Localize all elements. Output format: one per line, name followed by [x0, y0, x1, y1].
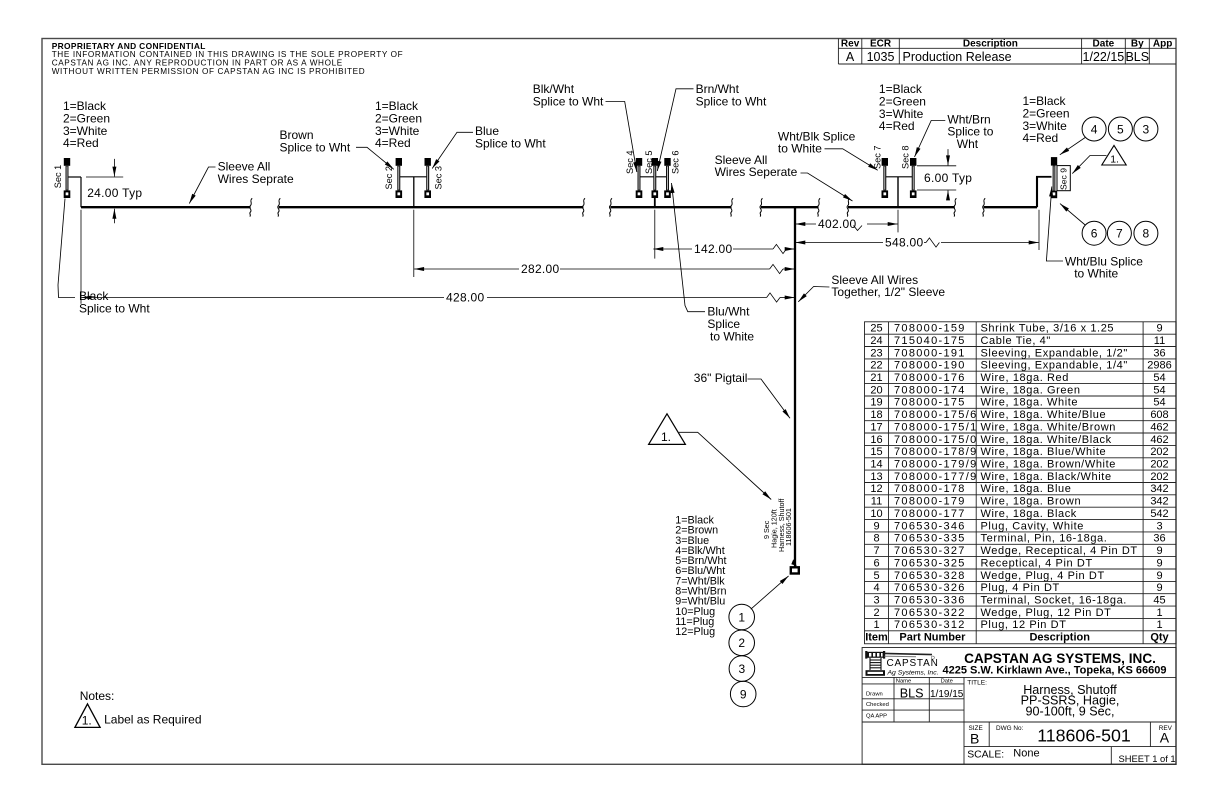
svg-text:17: 17	[870, 421, 882, 433]
svg-text:13: 13	[870, 471, 882, 483]
svg-text:548.00: 548.00	[885, 235, 924, 249]
svg-text:Notes:: Notes:	[80, 689, 115, 703]
svg-text:54: 54	[1153, 384, 1165, 396]
svg-text:Sec 5: Sec 5	[644, 151, 654, 175]
svg-text:36: 36	[1153, 533, 1165, 545]
svg-text:708000-176: 708000-176	[894, 372, 966, 384]
svg-text:708000-177/9: 708000-177/9	[894, 471, 978, 483]
connector Sec 8	[910, 158, 917, 198]
svg-text:428.00: 428.00	[446, 290, 485, 304]
svg-text:8: 8	[873, 533, 879, 545]
flag note triangle 1 at Sec 9	[1072, 145, 1126, 173]
svg-text:Plug, Cavity, White: Plug, Cavity, White	[981, 520, 1085, 532]
wire color legend at Sec 1	[63, 99, 110, 150]
svg-text:708000-175: 708000-175	[894, 397, 966, 409]
svg-text:462: 462	[1150, 434, 1168, 446]
svg-text:6: 6	[873, 557, 879, 569]
svg-text:Wedge, Plug, 12 Pin DT: Wedge, Plug, 12 Pin DT	[981, 607, 1112, 619]
svg-text:5: 5	[873, 570, 879, 582]
svg-text:708000-174: 708000-174	[894, 384, 966, 396]
svg-text:Together, 1/2" Sleeve: Together, 1/2" Sleeve	[831, 285, 945, 299]
svg-text:1035: 1035	[867, 50, 895, 64]
svg-text:to White: to White	[710, 329, 754, 343]
svg-text:BLS: BLS	[1125, 50, 1149, 64]
svg-text:715040-175: 715040-175	[894, 335, 966, 347]
svg-text:Qty: Qty	[1150, 632, 1169, 644]
svg-text:Sec 2: Sec 2	[384, 166, 394, 190]
svg-text:SCALE:: SCALE:	[967, 750, 1004, 761]
svg-text:1: 1	[1156, 607, 1162, 619]
leader from balloon 6 to Sec 9 bottom pin	[1060, 204, 1085, 225]
svg-text:4=Red: 4=Red	[879, 119, 915, 133]
note triangle 1	[75, 704, 100, 728]
svg-text:706530-326: 706530-326	[894, 582, 966, 594]
svg-text:Rev: Rev	[841, 38, 860, 49]
drawing title	[1021, 683, 1120, 718]
dimension 142.00	[653, 248, 794, 250]
svg-text:708000-190: 708000-190	[894, 360, 966, 372]
svg-text:20: 20	[870, 384, 882, 396]
rotated harness label text at pigtail	[762, 499, 793, 552]
drawn/checked rows	[866, 679, 987, 720]
svg-text:282.00: 282.00	[521, 262, 560, 276]
svg-text:Wht: Wht	[957, 137, 979, 151]
svg-text:Production Release: Production Release	[903, 50, 1012, 64]
svg-text:24.00 Typ: 24.00 Typ	[87, 186, 142, 200]
svg-text:Drawn: Drawn	[866, 692, 883, 698]
callout Wht/Brn Splice to Wht	[915, 121, 946, 158]
svg-text:Receptical, 4 Pin DT: Receptical, 4 Pin DT	[981, 557, 1093, 569]
svg-text:708000-175/6: 708000-175/6	[894, 409, 978, 421]
svg-text:4: 4	[1091, 122, 1098, 136]
svg-text:4: 4	[873, 582, 879, 594]
callout Brn/Wht Splice to Wht	[657, 89, 693, 171]
callout Black Splice to Wht leader	[58, 199, 75, 298]
wire branch to Sec 7/8	[885, 177, 913, 207]
svg-text:A: A	[1160, 729, 1170, 745]
dimension 282.00	[414, 268, 795, 270]
size / dwg no / rev	[969, 725, 1173, 732]
pigtail wire legend	[675, 515, 726, 639]
svg-text:608: 608	[1150, 409, 1168, 421]
svg-text:Wedge, Plug, 4 Pin DT: Wedge, Plug, 4 Pin DT	[981, 570, 1105, 582]
svg-text:706530-325: 706530-325	[894, 557, 966, 569]
wire riser to Sec 9	[1036, 177, 1052, 207]
svg-text:Sec 7: Sec 7	[873, 146, 883, 170]
svg-text:90-100ft, 9 Sec,: 90-100ft, 9 Sec,	[1026, 704, 1115, 718]
svg-text:3: 3	[739, 662, 746, 676]
svg-text:Wire, 18ga. White/Blue: Wire, 18ga. White/Blue	[981, 409, 1107, 421]
svg-text:Ag Systems, Inc.: Ag Systems, Inc.	[887, 670, 939, 677]
connector Sec 4	[636, 158, 643, 198]
svg-text:4=Red: 4=Red	[1023, 131, 1059, 145]
svg-text:to White: to White	[778, 142, 822, 156]
svg-text:Wedge, Receptical, 4 Pin DT: Wedge, Receptical, 4 Pin DT	[981, 545, 1138, 557]
svg-text:342: 342	[1150, 483, 1168, 495]
svg-text:9: 9	[740, 687, 747, 701]
svg-text:Sec 1: Sec 1	[53, 165, 63, 189]
svg-text:Splice to Wht: Splice to Wht	[533, 94, 604, 108]
svg-text:2: 2	[738, 636, 745, 650]
svg-text:Splice to Wht: Splice to Wht	[475, 137, 546, 151]
svg-text:54: 54	[1153, 397, 1165, 409]
svg-text:8: 8	[1143, 227, 1150, 241]
svg-text:3: 3	[873, 595, 879, 607]
svg-text:WITHOUT WRITTEN PERMISSION OF: WITHOUT WRITTEN PERMISSION OF CAPSTAN AG…	[52, 67, 366, 76]
svg-text:36" Pigtail: 36" Pigtail	[694, 371, 748, 385]
svg-text:QA APP: QA APP	[866, 714, 887, 720]
svg-text:Wire, 18ga. Blue: Wire, 18ga. Blue	[981, 483, 1072, 495]
svg-text:Sec 8: Sec 8	[901, 146, 911, 170]
connector Sec 2	[396, 158, 403, 198]
svg-text:24: 24	[870, 335, 882, 347]
svg-text:Terminal, Socket, 16-18ga.: Terminal, Socket, 16-18ga.	[981, 595, 1127, 607]
svg-text:708000-178/9: 708000-178/9	[894, 446, 978, 458]
svg-text:Label as Required: Label as Required	[104, 712, 201, 726]
callout Blu/Wht Splice to White	[672, 183, 706, 312]
svg-text:708000-159: 708000-159	[894, 323, 966, 335]
svg-text:6: 6	[1091, 227, 1098, 241]
svg-text:118606-501: 118606-501	[1037, 726, 1131, 746]
svg-text:142.00: 142.00	[694, 242, 733, 256]
svg-text:Wires Seperate: Wires Seperate	[715, 165, 798, 179]
svg-text:12: 12	[870, 483, 882, 495]
svg-text:1.: 1.	[1110, 154, 1119, 166]
svg-text:Cable Tie, 4": Cable Tie, 4"	[981, 335, 1051, 347]
svg-text:1.: 1.	[82, 713, 92, 727]
svg-text:7: 7	[873, 545, 879, 557]
capstan logo	[865, 651, 938, 677]
svg-text:19: 19	[870, 397, 882, 409]
svg-text:Shrink Tube, 3/16 x 1.25: Shrink Tube, 3/16 x 1.25	[981, 323, 1115, 335]
svg-text:14: 14	[870, 459, 882, 471]
svg-text:Wire, 18ga. White/Black: Wire, 18ga. White/Black	[981, 434, 1112, 446]
callout Brown Splice to Wht	[356, 147, 394, 169]
leader from balloon 1 to pigtail connector	[751, 576, 789, 609]
callout Wht/Blk Splice to White	[825, 149, 878, 170]
svg-text:B: B	[970, 730, 979, 746]
svg-text:708000-179/9: 708000-179/9	[894, 459, 978, 471]
svg-text:54: 54	[1153, 372, 1165, 384]
connector Sec 7	[882, 158, 889, 198]
svg-text:3: 3	[1156, 520, 1162, 532]
svg-text:Checked: Checked	[866, 702, 889, 708]
pigtail connector (12 pin plug)	[791, 567, 799, 573]
svg-text:1/19/15: 1/19/15	[930, 689, 964, 700]
svg-text:542: 542	[1150, 508, 1168, 520]
svg-text:Description: Description	[1029, 632, 1090, 644]
leader from balloon 4 to Sec 9 top pin	[1060, 138, 1085, 155]
dimension extension lines	[81, 210, 1039, 304]
svg-text:706530-346: 706530-346	[894, 520, 966, 532]
svg-text:CAPSTAN: CAPSTAN	[887, 658, 939, 669]
svg-text:Wire, 18ga. Black/White: Wire, 18ga. Black/White	[981, 471, 1112, 483]
svg-text:Terminal, Pin, 16-18ga.: Terminal, Pin, 16-18ga.	[981, 533, 1108, 545]
svg-text:BLS: BLS	[900, 686, 924, 700]
svg-text:Wire, 18ga. Brown/White: Wire, 18ga. Brown/White	[981, 459, 1116, 471]
svg-text:21: 21	[870, 372, 882, 384]
svg-text:to White: to White	[1074, 267, 1118, 281]
svg-text:Wire, 18ga. White/Brown: Wire, 18ga. White/Brown	[981, 421, 1116, 433]
svg-text:Name: Name	[896, 679, 911, 685]
svg-text:45: 45	[1153, 595, 1165, 607]
svg-text:4=Red: 4=Red	[63, 136, 99, 150]
svg-text:TITLE:: TITLE:	[967, 679, 987, 686]
svg-text:708000-191: 708000-191	[894, 347, 966, 359]
svg-text:A: A	[846, 50, 855, 64]
svg-text:5: 5	[1117, 122, 1124, 136]
callout Blk/Wht Splice to Wht	[606, 102, 637, 173]
svg-text:9: 9	[1156, 557, 1162, 569]
svg-text:11: 11	[871, 496, 882, 508]
svg-text:706530-322: 706530-322	[894, 607, 966, 619]
svg-text:Wire, 18ga. Brown: Wire, 18ga. Brown	[981, 496, 1082, 508]
connector Sec 1	[64, 158, 71, 198]
svg-text:9: 9	[1156, 570, 1162, 582]
svg-text:Splice to Wht: Splice to Wht	[280, 140, 351, 154]
svg-text:12=Plug: 12=Plug	[675, 626, 715, 638]
svg-text:2: 2	[873, 607, 879, 619]
svg-text:2986: 2986	[1147, 360, 1171, 372]
svg-text:Sec 9: Sec 9	[1059, 168, 1069, 190]
svg-text:18: 18	[870, 409, 882, 421]
svg-text:706530-328: 706530-328	[894, 570, 966, 582]
balloon circles 6 7 8	[1082, 221, 1158, 245]
svg-text:Part Number: Part Number	[899, 632, 966, 644]
svg-text:3: 3	[1143, 122, 1150, 136]
connector Sec 9	[1051, 157, 1070, 198]
svg-text:4225 S.W. Kirklawn Ave., Topek: 4225 S.W. Kirklawn Ave., Topeka, KS 6660…	[943, 665, 1167, 677]
svg-text:10: 10	[870, 508, 882, 520]
svg-text:1.: 1.	[661, 430, 671, 444]
svg-text:1: 1	[738, 610, 745, 624]
svg-text:Plug, 4 Pin DT: Plug, 4 Pin DT	[981, 582, 1060, 594]
svg-text:708000-175/1: 708000-175/1	[894, 421, 978, 433]
svg-text:6.00 Typ: 6.00 Typ	[924, 171, 972, 185]
svg-text:Wire, 18ga. Black: Wire, 18ga. Black	[981, 508, 1077, 520]
svg-text:462: 462	[1150, 421, 1168, 433]
svg-text:708000-175/0: 708000-175/0	[894, 434, 978, 446]
svg-text:Sleeving, Expandable, 1/4": Sleeving, Expandable, 1/4"	[981, 360, 1128, 372]
svg-text:Sleeving, Expandable, 1/2": Sleeving, Expandable, 1/2"	[981, 347, 1128, 359]
connector Sec 5	[652, 158, 659, 198]
flag note triangle 1 at pigtail	[649, 414, 772, 500]
svg-text:706530-336: 706530-336	[894, 595, 966, 607]
svg-text:202: 202	[1150, 471, 1168, 483]
svg-text:9: 9	[1156, 323, 1162, 335]
svg-text:Wire, 18ga. Green: Wire, 18ga. Green	[981, 384, 1081, 396]
balloon circles 4 5 3	[1082, 117, 1158, 141]
connector Sec 3	[424, 158, 431, 198]
svg-text:Sec 3: Sec 3	[434, 166, 444, 190]
callout Sleeve All Wires Seprate (left)	[189, 167, 215, 204]
svg-text:Wire, 18ga. White: Wire, 18ga. White	[981, 397, 1079, 409]
svg-text:9: 9	[1156, 545, 1162, 557]
svg-text:DWG No:: DWG No:	[996, 725, 1024, 732]
dimension 428.00	[81, 297, 794, 299]
svg-text:22: 22	[870, 360, 882, 372]
callout Wht/Blu Splice to White	[1046, 187, 1063, 262]
svg-text:1: 1	[1156, 619, 1162, 631]
svg-text:Plug, 12 Pin DT: Plug, 12 Pin DT	[981, 619, 1067, 631]
balloon circles 1 2 3 9 at pigtail	[729, 604, 756, 707]
wire branch to Sec 4/5/6	[639, 177, 668, 207]
svg-text:706530-327: 706530-327	[894, 545, 966, 557]
svg-text:23: 23	[870, 347, 882, 359]
svg-text:Splice to Wht: Splice to Wht	[696, 94, 767, 108]
dimension 6.00 Typ	[917, 149, 956, 200]
wire branch to Sec 2/3	[399, 177, 428, 207]
svg-text:Description: Description	[963, 38, 1018, 49]
title block frame	[862, 648, 1176, 765]
arrowhead above pigtail connector	[791, 559, 797, 566]
svg-text:SHEET 1 of 1: SHEET 1 of 1	[1119, 753, 1176, 764]
svg-text:7: 7	[1116, 227, 1123, 241]
pigtail wire drop	[794, 207, 796, 566]
svg-text:App: App	[1153, 38, 1172, 49]
svg-text:Sec 6: Sec 6	[671, 151, 681, 175]
svg-text:706530-335: 706530-335	[894, 533, 966, 545]
svg-text:11: 11	[1154, 335, 1165, 347]
callout 36 inch Pigtail	[748, 379, 791, 418]
svg-text:16: 16	[870, 434, 882, 446]
svg-text:Date: Date	[941, 679, 953, 685]
svg-text:202: 202	[1150, 459, 1168, 471]
svg-text:4=Red: 4=Red	[375, 136, 411, 150]
svg-text:ECR: ECR	[870, 38, 892, 49]
dimension 402.00	[795, 223, 897, 225]
callout Sleeve All Wires Seperate (right)	[801, 173, 853, 201]
svg-text:Wires Seprate: Wires Seprate	[218, 172, 294, 186]
svg-text:708000-177: 708000-177	[894, 508, 966, 520]
svg-text:342: 342	[1150, 496, 1168, 508]
svg-text:By: By	[1131, 38, 1144, 49]
svg-text:25: 25	[870, 323, 882, 335]
svg-text:None: None	[1013, 748, 1039, 760]
svg-text:36: 36	[1153, 347, 1165, 359]
svg-text:706530-312: 706530-312	[894, 619, 966, 631]
svg-text:1: 1	[873, 619, 879, 631]
svg-text:Splice to Wht: Splice to Wht	[79, 302, 150, 316]
svg-text:708000-179: 708000-179	[894, 496, 966, 508]
main harness trunk wire	[81, 206, 1037, 208]
svg-text:Wire, 18ga. Blue/White: Wire, 18ga. Blue/White	[981, 446, 1107, 458]
svg-text:9: 9	[1156, 582, 1162, 594]
dimension 24.00 Typ	[86, 159, 123, 223]
svg-text:202: 202	[1150, 446, 1168, 458]
connector Sec 6	[664, 158, 671, 198]
wire color legend at Sec 9	[1023, 94, 1070, 145]
svg-text:Date: Date	[1093, 38, 1115, 49]
svg-text:9: 9	[873, 520, 879, 532]
callout Blue Splice to Wht	[432, 132, 473, 168]
svg-text:708000-178: 708000-178	[894, 483, 966, 495]
svg-text:15: 15	[870, 446, 882, 458]
svg-text:Item: Item	[865, 632, 888, 644]
dimension 548.00	[795, 242, 1038, 244]
callout Sleeve All Wires Together	[798, 287, 829, 302]
svg-text:402.00: 402.00	[818, 217, 857, 231]
bill of materials table	[865, 322, 1177, 644]
proprietary and confidential notice	[52, 41, 404, 76]
wire branch to Sec 1	[67, 177, 81, 207]
svg-text:9 Sec: 9 Sec	[762, 520, 771, 539]
svg-text:Wire, 18ga. Red: Wire, 18ga. Red	[981, 372, 1069, 384]
revision table	[838, 39, 1176, 65]
wire color legend at Sec 7/8	[879, 82, 926, 133]
trunk break squiggles	[250, 198, 253, 216]
wire color legend at Sec 2/3	[375, 99, 422, 150]
svg-text:1/22/15: 1/22/15	[1083, 50, 1125, 64]
